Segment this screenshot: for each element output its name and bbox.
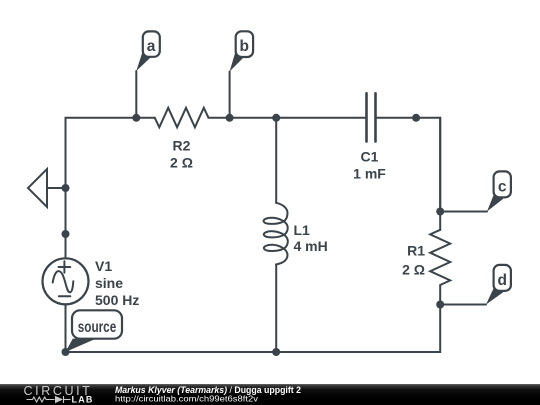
wire inductor branch top bbox=[275, 118, 277, 203]
flag c tail bbox=[487, 194, 503, 212]
wire top rail right segment bbox=[376, 118, 440, 230]
wire bottom rail bbox=[66, 285, 441, 352]
flag a tail bbox=[136, 51, 150, 72]
svg-text:source: source bbox=[78, 319, 117, 336]
junction after C1 dot bbox=[412, 114, 420, 122]
wire inductor branch bottom bbox=[275, 265, 277, 353]
svg-text:2 Ω: 2 Ω bbox=[170, 155, 193, 171]
junction node c dot bbox=[436, 208, 444, 216]
svg-text:d: d bbox=[497, 272, 506, 289]
V1 minus sign bbox=[59, 295, 71, 297]
svg-text:C1: C1 bbox=[361, 149, 379, 165]
svg-text:R2: R2 bbox=[173, 138, 191, 154]
junction L1 top dot bbox=[272, 114, 280, 122]
voltage source V1 circle bbox=[43, 258, 89, 304]
flag source tail bbox=[66, 339, 97, 352]
svg-text:R1: R1 bbox=[407, 243, 425, 259]
svg-text:500 Hz: 500 Hz bbox=[95, 292, 139, 308]
wire flag b stub bbox=[229, 72, 231, 118]
svg-text:1 mF: 1 mF bbox=[353, 166, 386, 182]
svg-text:LAB: LAB bbox=[72, 395, 94, 405]
junction node d dot bbox=[436, 301, 444, 309]
footer bar bbox=[0, 384, 540, 405]
junction node b dot bbox=[226, 114, 234, 122]
svg-text:2 Ω: 2 Ω bbox=[402, 262, 425, 278]
CircuitLab logo diode symbol bbox=[55, 396, 63, 403]
flag c box bbox=[494, 171, 511, 197]
flag d box bbox=[494, 265, 511, 291]
CircuitLab logo mini schematic bbox=[27, 396, 71, 403]
flag a box bbox=[143, 31, 160, 56]
wire left rail bbox=[65, 304, 67, 352]
flag d tail bbox=[486, 287, 503, 305]
wire flag c stub bbox=[440, 211, 487, 213]
svg-text:http://circuitlab.com/ch99et6s: http://circuitlab.com/ch99et6s8ft2v bbox=[115, 394, 259, 403]
V1 sine symbol bbox=[53, 271, 74, 292]
junction L1 bottom dot bbox=[272, 348, 280, 356]
flag source box bbox=[72, 310, 122, 338]
svg-text:a: a bbox=[147, 38, 156, 55]
svg-text:4 mH: 4 mH bbox=[294, 238, 328, 254]
flag b tail bbox=[230, 51, 244, 72]
junction above V1 dot bbox=[62, 230, 70, 238]
svg-text:sine: sine bbox=[95, 275, 123, 291]
junction node a dot bbox=[132, 114, 140, 122]
inductor L1 bbox=[264, 203, 288, 265]
wire triangle flag stub bbox=[47, 187, 66, 189]
resistor R2 bbox=[155, 108, 208, 128]
net flag triangle (unnamed node arrow) bbox=[28, 169, 47, 207]
svg-text:c: c bbox=[498, 178, 507, 195]
resistor R1 bbox=[430, 230, 450, 285]
wire top rail left segment bbox=[66, 118, 155, 258]
junction triangle flag dot bbox=[62, 184, 70, 192]
wire right rail bbox=[439, 118, 441, 212]
wire flag d stub bbox=[440, 304, 486, 306]
flag b box bbox=[236, 31, 253, 57]
wire top rail middle segment bbox=[208, 117, 366, 119]
V1 plus sign bbox=[59, 261, 71, 273]
svg-text:b: b bbox=[239, 38, 248, 55]
junction source dot bbox=[62, 348, 70, 356]
svg-text:V1: V1 bbox=[95, 258, 112, 274]
wire flag a stub bbox=[135, 71, 137, 118]
svg-text:L1: L1 bbox=[294, 222, 311, 238]
capacitor C1 bbox=[367, 93, 376, 141]
